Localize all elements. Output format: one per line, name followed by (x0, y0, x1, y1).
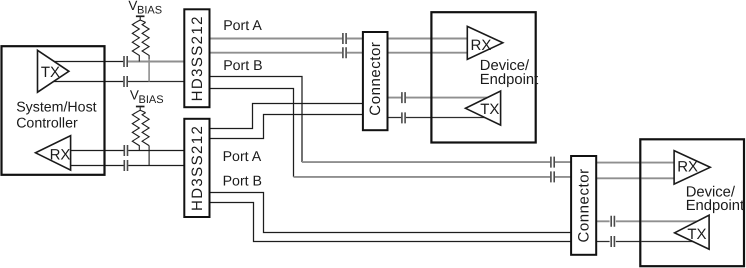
wire host TX- to HD3SS212 U1 (left of cap) (48, 81, 123, 83)
svg-text:HD3SS212: HD3SS212 (189, 125, 206, 211)
capacitor C7 on Device1 TX+ (402, 92, 405, 103)
capacitor C5 on Port A + (343, 33, 346, 44)
svg-text:TX: TX (480, 101, 499, 118)
svg-text:TX: TX (41, 64, 60, 81)
svg-text:Port A: Port A (223, 18, 262, 34)
wire R4 lead to RX- (148, 146, 150, 166)
wire host RX+ from HD3SS212 U2 (left of cap) (66, 150, 124, 152)
Device1 RX buffer triangle (467, 26, 503, 59)
resistor R2 (VBIAS to TX-) (142, 22, 149, 59)
wire U1 Port A - to Connector J1 and Device1 RX (210, 52, 469, 54)
wire host RX+ from HD3SS212 U2 (right of cap) (128, 150, 184, 152)
HD3SS212 U1 box (184, 9, 209, 107)
svg-text:RX: RX (677, 159, 698, 176)
wire U2 Port A + up-route to Connector J1 (210, 104, 363, 129)
capacitor C8 on Device1 TX- (402, 112, 405, 123)
svg-text:RX: RX (471, 37, 492, 54)
wire host RX pair inside controller box (66, 151, 104, 166)
svg-text:Endpoint: Endpoint (480, 72, 538, 88)
svg-text:BIAS: BIAS (139, 94, 164, 106)
wire Device2 TX+ return to Connector J2 (597, 220, 698, 222)
capacitor C2 on host TX- (124, 76, 127, 87)
wire Device1 TX- return to Connector J1 (388, 117, 489, 119)
svg-text:Controller: Controller (16, 116, 78, 132)
VBIAS supply bar 1 (132, 16, 149, 165)
Device2 TX buffer triangle (675, 215, 710, 249)
wire host TX- to HD3SS212 U1 (right of cap) (128, 81, 184, 83)
wire U2 Port A - up-route to Connector J1 (210, 115, 363, 139)
svg-text:TX: TX (687, 226, 706, 243)
Connector J2 box (571, 156, 596, 255)
Connector J1 box (363, 32, 388, 130)
svg-text:Connector: Connector (576, 168, 593, 242)
svg-text:Connector: Connector (367, 42, 384, 116)
svg-text:Endpoint: Endpoint (686, 198, 744, 214)
Device/Endpoint 2 box (640, 139, 744, 266)
wire Connector J2 to Device2 RX+ (597, 162, 675, 164)
capacitor C1 on host TX+ (124, 33, 614, 247)
svg-text:Port B: Port B (223, 173, 262, 189)
wire Device2 TX- return to Connector J2 (597, 241, 694, 243)
host RX buffer triangle (36, 136, 71, 171)
capacitor C6 on Port A - (343, 47, 346, 58)
wire host RX- from HD3SS212 U2 (right of cap) (128, 165, 184, 167)
capacitor C9 on Port B + long run (551, 157, 554, 168)
wire host TX pair inside controller box (48, 62, 104, 82)
wire host TX+ to HD3SS212 U1 (right of cap) (128, 61, 184, 63)
wires re-drawn entering device boxes (over box fill) (433, 39, 698, 242)
wire U1 Port B + long run to Connector J2 (302, 161, 572, 163)
host TX buffer triangle (38, 50, 69, 92)
capacitor C10 on Port B - long run (551, 171, 554, 182)
capacitor C12 on Device2 TX- (611, 236, 614, 247)
svg-text:BIAS: BIAS (137, 4, 162, 16)
System/Host Controller box (2, 46, 105, 175)
wire U2 Port B + down-route to Connector J2 (210, 193, 572, 233)
svg-text:HD3SS212: HD3SS212 (189, 15, 206, 101)
svg-text:System/Host: System/Host (16, 100, 96, 116)
resistor R1 (VBIAS to TX+) (132, 22, 139, 61)
resistor R4 (VBIAS to RX-) (142, 113, 149, 146)
wire U2 Port B - down-route to Connector J2 (210, 203, 572, 242)
svg-text:Port B: Port B (223, 58, 262, 74)
svg-text:RX: RX (50, 147, 71, 164)
wire U1 Port B + down-route (210, 77, 303, 163)
wire U1 Port A + to Connector J1 and Device1 RX (210, 38, 469, 40)
resistor R3 (VBIAS to RX+) (132, 113, 139, 151)
wire U1 Port B - down-route (210, 89, 294, 177)
HD3SS212 U2 box (184, 119, 209, 217)
wire host RX- from HD3SS212 U2 (left of cap) (66, 165, 124, 167)
capacitor C11 on Device2 TX+ (611, 216, 614, 227)
Device1 TX buffer triangle (466, 91, 501, 125)
VBIAS supply bar 2 (136, 106, 145, 108)
Device/Endpoint 1 box (431, 12, 535, 142)
Device2 RX buffer triangle (674, 151, 710, 185)
wire host TX+ to HD3SS212 U1 (left of cap) (48, 61, 123, 63)
capacitor C4 on host RX- (124, 160, 127, 171)
wire Connector J2 to Device2 RX- (597, 177, 675, 179)
svg-text:Port A: Port A (223, 149, 262, 165)
wire R2 lead to TX- (148, 59, 150, 82)
capacitor C3 on host RX+ (124, 145, 127, 156)
wire U1 Port B - long run to Connector J2 (294, 176, 573, 178)
wire Device1 TX+ return to Connector J1 (388, 97, 494, 99)
